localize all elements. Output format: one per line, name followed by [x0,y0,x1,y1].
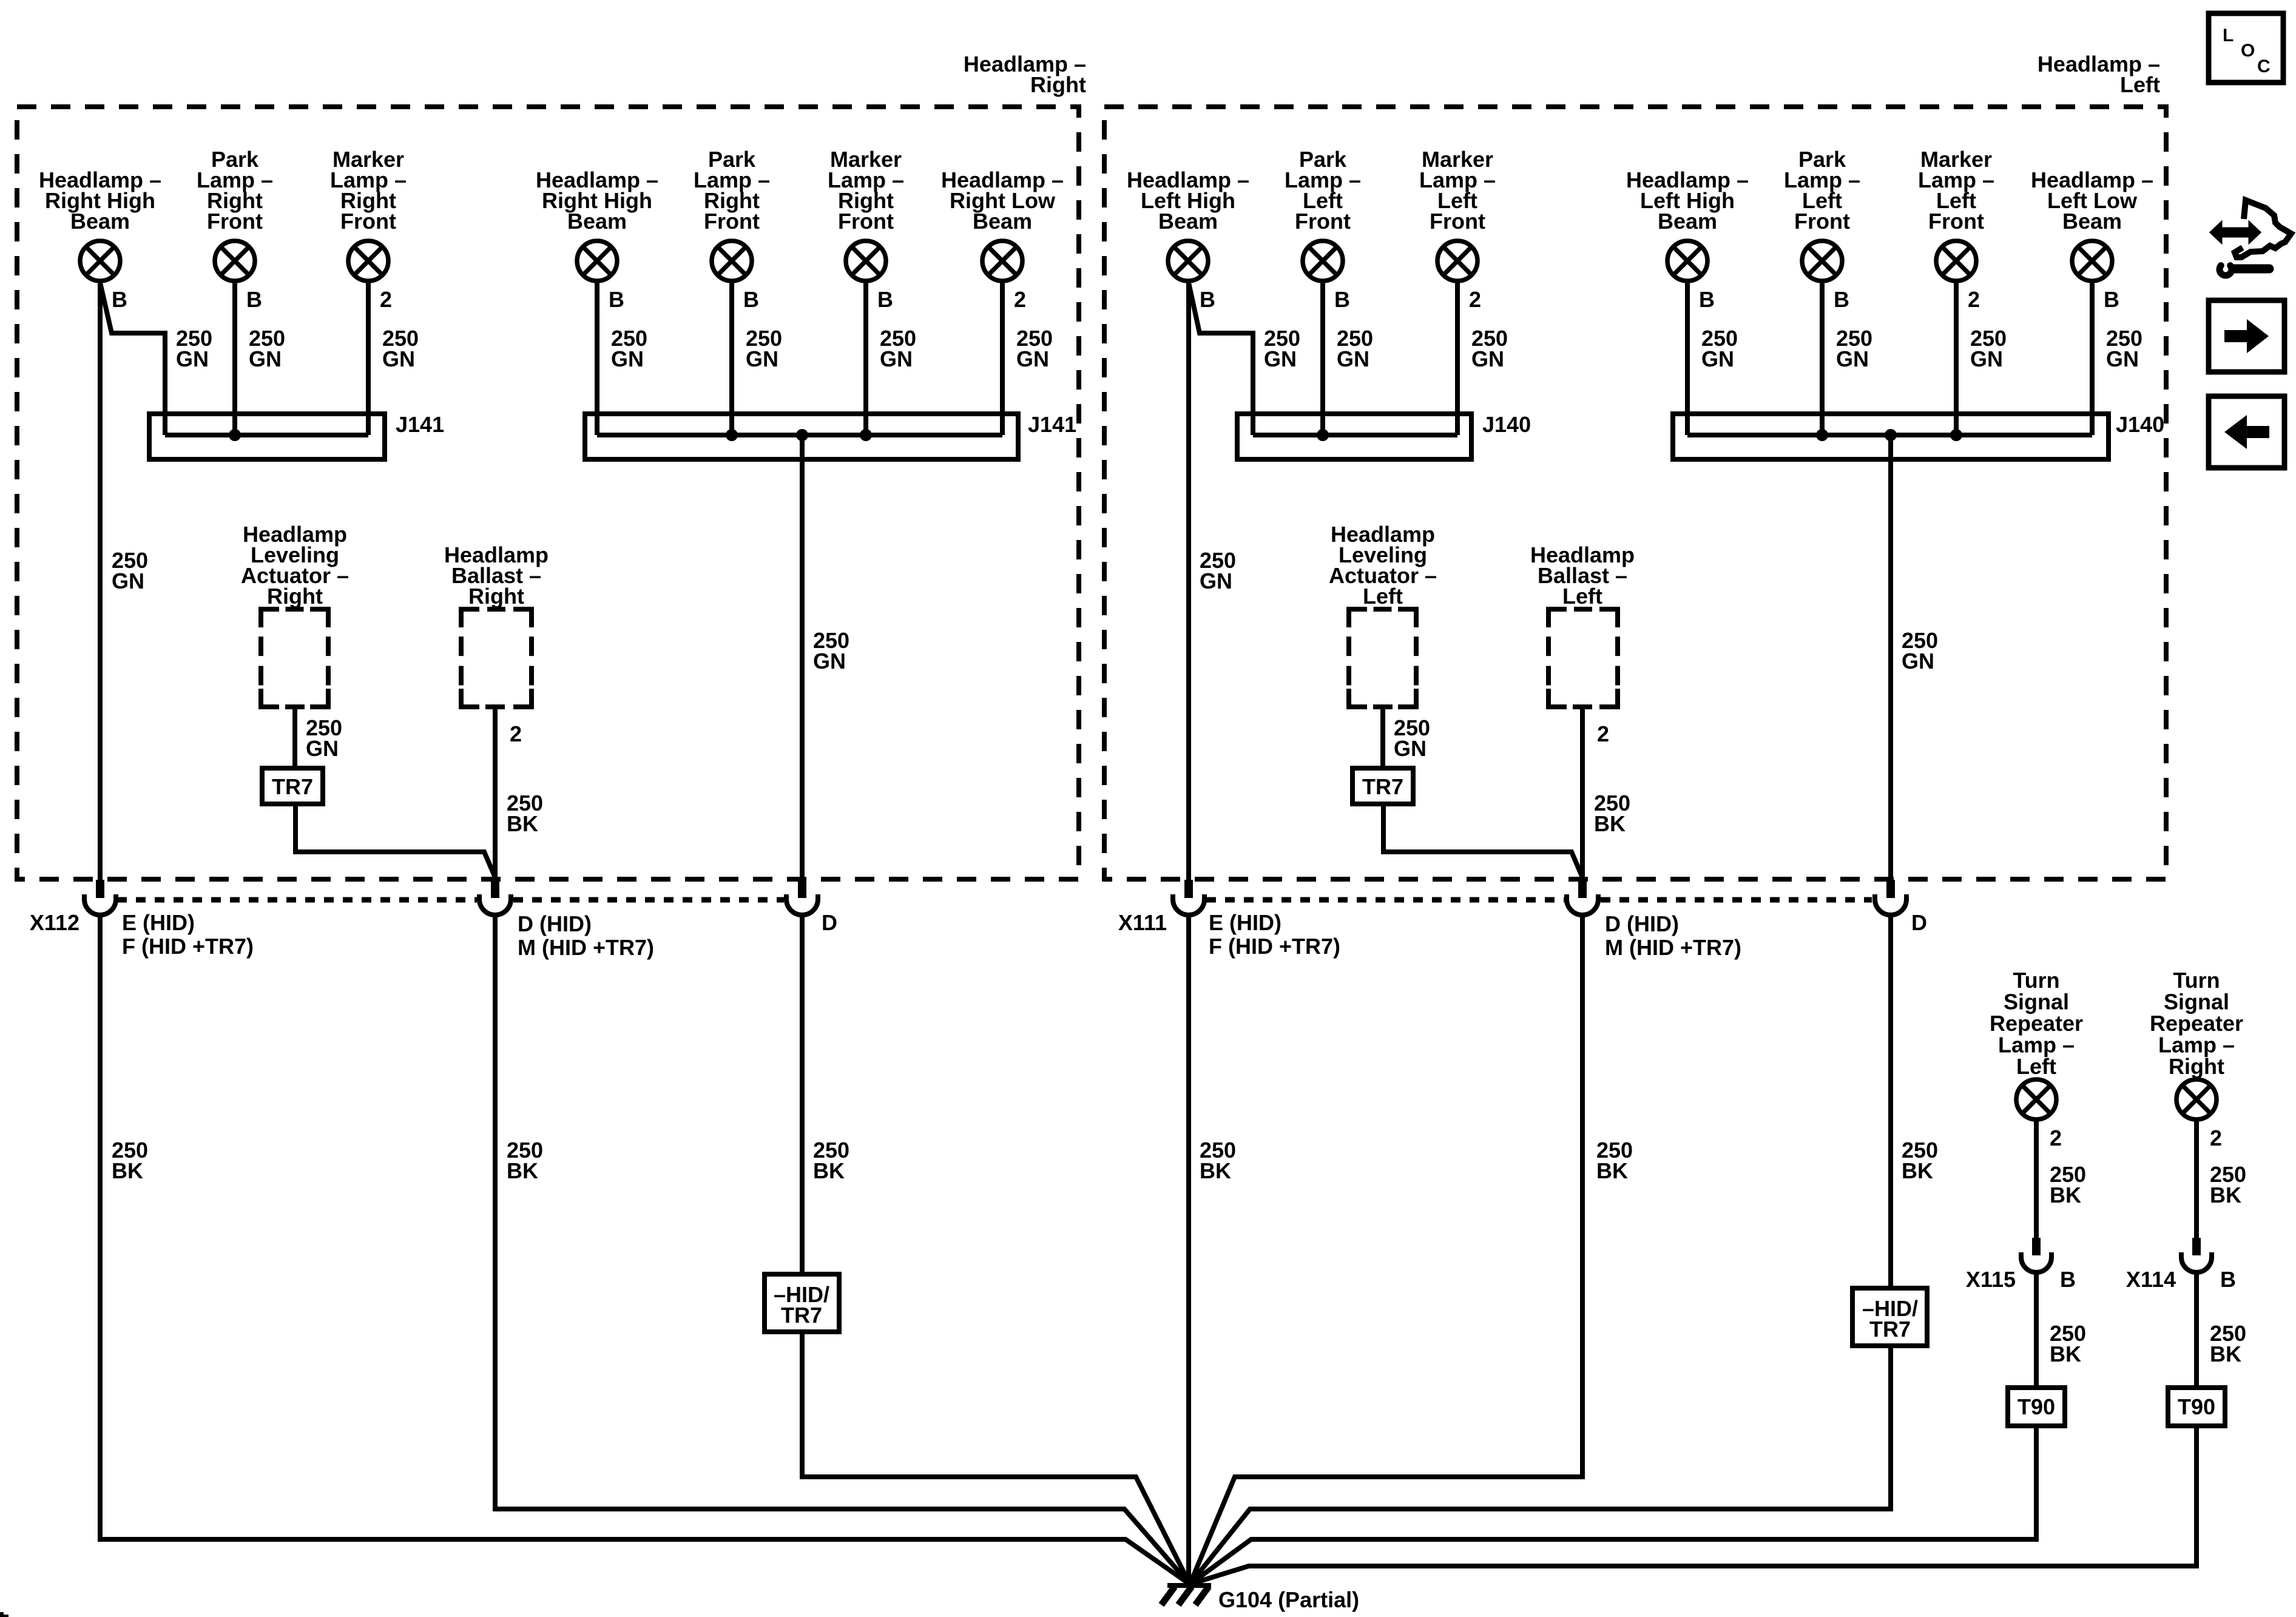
svg-text:B: B [2220,1267,2236,1292]
lamp Marker Lamp Left Front (E10) [1437,241,1477,281]
junction dot J141-2 b [860,429,872,441]
lamp Park Lamp Right Front (E5) [712,241,752,281]
svg-text:250BK: 250BK [507,1138,543,1183]
svg-text:D: D [822,910,837,935]
svg-text:TR7: TR7 [1362,774,1403,799]
lamp Headlamp Left High Beam (E8) [1168,241,1208,281]
svg-text:2: 2 [1014,287,1026,312]
wire actuator left to TR7 [1380,707,1385,768]
dashed box Headlamp Right [17,107,1079,879]
svg-text:250GN: 250GN [746,326,782,371]
lamp Turn Signal Repeater Left [2016,1079,2056,1119]
option box -HID/TR7 right [765,1274,839,1332]
junction dot J141-1 [229,429,241,441]
icon vehicle outline [2235,200,2291,257]
svg-text:Headlamp –Left HighBeam: Headlamp –Left HighBeam [1127,167,1249,234]
legend box arrow right [2209,300,2284,372]
svg-text:ParkLamp –RightFront: ParkLamp –RightFront [694,147,770,234]
wire -HID/TR7 left to G104 [1190,1346,1891,1584]
lamp Park Lamp Left Front (E9) [1303,241,1343,281]
svg-text:O: O [2241,41,2255,61]
svg-text:250BK: 250BK [1594,791,1630,836]
junction dot J140-2 a [1816,429,1828,441]
connector J141 splice pack 2 [585,414,1018,459]
lamp Headlamp Right High Beam (E1) [80,241,120,281]
lamp Turn Signal Repeater Right [2176,1079,2217,1119]
junction dot J140-2 b [1950,429,1962,441]
wire J140-2 output down [1888,435,1893,880]
svg-text:250GN: 250GN [880,326,916,371]
svg-text:250BK: 250BK [2050,1162,2086,1207]
svg-text:ParkLamp –LeftFront: ParkLamp –LeftFront [1285,147,1361,234]
connector X114 [2192,1238,2201,1255]
svg-text:L: L [2223,25,2234,46]
svg-text:B: B [877,287,893,312]
svg-text:E (HID)F (HID +TR7): E (HID)F (HID +TR7) [1209,910,1340,959]
icon wrench [2220,266,2269,275]
svg-text:D (HID)M (HID +TR7): D (HID)M (HID +TR7) [1605,911,1741,960]
wire X112 E to G104 [100,915,1190,1584]
wire jog lamp E8 to J140 bus [1189,283,1253,435]
svg-text:B: B [609,287,624,312]
wire lamp drop x=3448 [2090,281,2095,435]
wire X112 D/M to G104 [495,915,1190,1584]
svg-text:Headlamp –Right HighBeam: Headlamp –Right HighBeam [39,167,161,234]
svg-text:2: 2 [380,287,392,312]
svg-text:–HID/TR7: –HID/TR7 [1862,1296,1918,1342]
connector J140 splice pack 2 [1673,414,2109,459]
svg-text:2: 2 [2050,1126,2062,1150]
connector line X112 (dotted) [117,897,784,903]
junction dot J141-2 out [796,429,808,441]
wire lamp drop x=984 [595,281,599,435]
svg-text:250GN: 250GN [382,326,419,371]
connector X112 terminal D [798,880,806,898]
svg-text:250GN: 250GN [2106,326,2142,371]
ground G104 [1161,1585,1211,1605]
wire jog lamp E1 to J141 bus [100,283,165,435]
wire lamp drop x=2180 [1320,281,1325,435]
lamp Headlamp Right Low Beam (E7) [982,241,1022,281]
wire J140-1 bus [1253,433,1457,437]
lamp Park Lamp Left Front (E12) [1802,241,1842,281]
option box -HID/TR7 left [1852,1288,1927,1346]
svg-text:250GN: 250GN [1337,326,1373,371]
connector J141 splice pack 1 [149,414,385,459]
svg-text:B: B [1699,287,1715,312]
svg-text:250GN: 250GN [813,628,849,673]
svg-text:TurnSignalRepeaterLamp –Left: TurnSignalRepeaterLamp –Left [1990,968,2083,1079]
wire turn signal Left to X115 [2034,1119,2039,1239]
svg-text:250BK: 250BK [2210,1162,2246,1207]
svg-text:2: 2 [2210,1126,2222,1150]
connector J140 splice pack 1 [1237,414,1471,459]
svg-text:X115: X115 [1966,1267,2016,1292]
lamp Headlamp Right High Beam (E4) [577,241,617,281]
svg-text:2: 2 [1597,721,1609,746]
wire J141-1 bus [165,433,368,437]
svg-text:X112: X112 [30,910,79,935]
svg-text:250GN: 250GN [1200,548,1236,593]
svg-text:MarkerLamp –LeftFront: MarkerLamp –LeftFront [1419,147,1496,234]
wire TR7 left to ballast wire [1383,804,1582,877]
svg-text:B: B [1334,287,1350,312]
svg-text:B: B [112,287,127,312]
wire -HID/TR7 right to G104 [802,1332,1190,1584]
lamp Marker Lamp Left Front (E13) [1936,241,1976,281]
wire actuator right to TR7 [292,707,297,768]
svg-text:2: 2 [510,721,522,746]
svg-text:ParkLamp –LeftFront: ParkLamp –LeftFront [1784,147,1860,234]
wire ballast right down [493,707,498,880]
svg-text:250GN: 250GN [1264,326,1300,371]
svg-text:E (HID)F (HID +TR7): E (HID)F (HID +TR7) [122,910,254,959]
connector X111 terminal D/M [1578,880,1587,898]
svg-text:Headlamp –Left LowBeam: Headlamp –Left LowBeam [2031,167,2153,234]
corner artifact mark [0,1612,4,1617]
svg-text:B: B [246,287,262,312]
lamp Park Lamp Right Front (E2) [215,241,255,281]
svg-text:250BK: 250BK [507,791,543,836]
junction dot J140-1 [1317,429,1329,441]
svg-text:G104 (Partial): G104 (Partial) [1218,1587,1359,1612]
legend box arrow left [2209,396,2284,468]
junction dot J141-2 a [726,429,738,441]
svg-text:250BK: 250BK [1200,1138,1236,1183]
svg-text:D: D [1911,910,1927,935]
wire lamp drop x=3224 [1954,281,1959,435]
wire lamp drop x=2402 [1455,281,1460,435]
svg-text:250GN: 250GN [306,715,342,761]
wire lamp drop x=3003 [1820,281,1825,435]
wire lamp drop x=1427 [863,281,868,435]
svg-text:Headlamp –Left HighBeam: Headlamp –Left HighBeam [1626,167,1749,234]
svg-text:250BK: 250BK [2050,1321,2086,1366]
option box TR7 left [1352,768,1413,804]
svg-text:Headlamp –Left: Headlamp –Left [2038,52,2160,97]
option box T90 Left [2008,1388,2065,1426]
svg-text:B: B [2104,287,2119,312]
icon double arrow [2210,222,2260,243]
svg-text:B: B [1200,287,1215,312]
lamp Headlamp Left Low Beam (E14) [2072,241,2112,281]
wire X112 D upper [800,915,805,1274]
connector X112 terminal E/F [96,880,104,898]
wire Headlamp Right High Beam to X112 [98,281,103,880]
svg-text:J141: J141 [396,412,444,437]
connector X115 [2032,1238,2041,1255]
option box T90 Right [2168,1388,2225,1426]
wire J140-2 bus [1687,433,2092,437]
component box Headlamp Leveling Actuator Right (dashed) [261,609,328,707]
lamp Headlamp Left High Beam (E11) [1667,241,1707,281]
dashed box Headlamp Left [1104,107,2166,879]
svg-text:J140: J140 [2116,412,2164,437]
svg-text:MarkerLamp –RightFront: MarkerLamp –RightFront [330,147,407,234]
svg-text:HeadlampBallast –Right: HeadlampBallast –Right [444,542,549,609]
lamp Marker Lamp Right Front (E6) [846,241,886,281]
svg-text:–HID/TR7: –HID/TR7 [774,1282,829,1328]
svg-text:B: B [1834,287,1849,312]
svg-text:250GN: 250GN [1970,326,2007,371]
component box Headlamp Ballast Right (dashed) [461,609,532,707]
wire J141-2 output down [800,435,805,880]
svg-text:X111: X111 [1118,910,1167,935]
wire turn signal Right to X114 [2194,1119,2199,1239]
wire X111 D upper [1888,915,1893,1288]
wire lamp drop x=1652 [1000,281,1005,435]
connector X111 terminal D [1886,880,1895,898]
wire X114 to T90 [2194,1272,2199,1388]
component box Headlamp Ballast Left (dashed) [1548,609,1618,707]
svg-text:250BK: 250BK [2210,1321,2246,1366]
component box Headlamp Leveling Actuator Left (dashed) [1349,609,1416,707]
svg-text:250GN: 250GN [176,326,212,371]
wire ballast left down [1580,707,1585,880]
svg-text:B: B [2060,1267,2076,1292]
svg-text:HeadlampLevelingActuator –Righ: HeadlampLevelingActuator –Right [241,522,349,609]
svg-text:D (HID)M (HID +TR7): D (HID)M (HID +TR7) [518,911,654,960]
connector line X111 (dotted) [1206,897,1872,903]
option box TR7 right [262,768,323,804]
svg-text:MarkerLamp –LeftFront: MarkerLamp –LeftFront [1918,147,1994,234]
lamp Marker Lamp Right Front (E3) [348,241,388,281]
svg-text:250GN: 250GN [1016,326,1053,371]
wire X111 D/M to G104 [1190,915,1582,1584]
svg-text:T90: T90 [2178,1394,2215,1419]
svg-text:T90: T90 [2017,1394,2055,1419]
svg-text:TR7: TR7 [272,774,313,799]
svg-text:Headlamp –Right: Headlamp –Right [964,52,1086,97]
svg-text:250GN: 250GN [1836,326,1872,371]
svg-text:J140: J140 [1482,412,1531,437]
junction dot J140-2 out [1885,429,1897,441]
connector X112 terminal D/M [491,880,499,898]
svg-text:250GN: 250GN [611,326,647,371]
svg-text:250BK: 250BK [1902,1138,1938,1183]
svg-text:250GN: 250GN [249,326,285,371]
wire T90 left to G104 [1190,1426,2036,1584]
svg-text:HeadlampBallast –Left: HeadlampBallast –Left [1530,542,1635,609]
svg-text:J141: J141 [1028,412,1076,437]
svg-text:B: B [743,287,759,312]
svg-text:ParkLamp –RightFront: ParkLamp –RightFront [197,147,273,234]
wire lamp drop x=1206 [729,281,734,435]
svg-text:C: C [2257,56,2271,76]
svg-text:Headlamp –Right LowBeam: Headlamp –Right LowBeam [941,167,1064,234]
svg-text:250GN: 250GN [1394,715,1430,761]
connector X111 terminal E/F [1184,880,1193,898]
svg-text:250GN: 250GN [1471,326,1508,371]
svg-text:2: 2 [1469,287,1481,312]
svg-text:TurnSignalRepeaterLamp –Right: TurnSignalRepeaterLamp –Right [2150,968,2243,1079]
svg-text:2: 2 [1968,287,1980,312]
wire lamp drop x=2781 [1685,281,1690,435]
LOC legend box [2209,13,2283,83]
wire X115 to T90 [2034,1272,2039,1388]
svg-text:250BK: 250BK [1596,1138,1633,1183]
wire Headlamp Left High Beam to X111 [1186,281,1191,880]
svg-text:X114: X114 [2126,1267,2176,1292]
wire X111 E to G104 [1186,915,1191,1584]
wire T90 right to G104 [1190,1426,2196,1584]
svg-text:250BK: 250BK [813,1138,849,1183]
wire J141-2 bus [597,433,1002,437]
svg-text:250GN: 250GN [1701,326,1738,371]
wire lamp drop x=607 [366,281,371,435]
svg-text:Headlamp –Right HighBeam: Headlamp –Right HighBeam [536,167,658,234]
wire TR7 right to ballast wire [295,804,495,877]
svg-text:250GN: 250GN [1902,628,1938,673]
svg-text:250BK: 250BK [112,1138,148,1183]
svg-text:250GN: 250GN [112,548,148,593]
wire lamp drop x=387 [232,281,237,435]
svg-text:HeadlampLevelingActuator –Left: HeadlampLevelingActuator –Left [1329,522,1437,609]
svg-text:MarkerLamp –RightFront: MarkerLamp –RightFront [828,147,904,234]
